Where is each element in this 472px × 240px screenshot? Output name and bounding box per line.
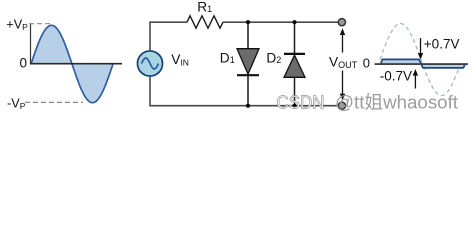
svg-text:-0.7V: -0.7V <box>380 69 412 84</box>
svg-text:@tt姐whaosoft: @tt姐whaosoft <box>335 93 458 113</box>
svg-text:0: 0 <box>20 56 28 71</box>
svg-text:0: 0 <box>363 56 370 71</box>
svg-text:+0.7V: +0.7V <box>424 36 460 51</box>
svg-text:CSDN: CSDN <box>277 93 325 113</box>
